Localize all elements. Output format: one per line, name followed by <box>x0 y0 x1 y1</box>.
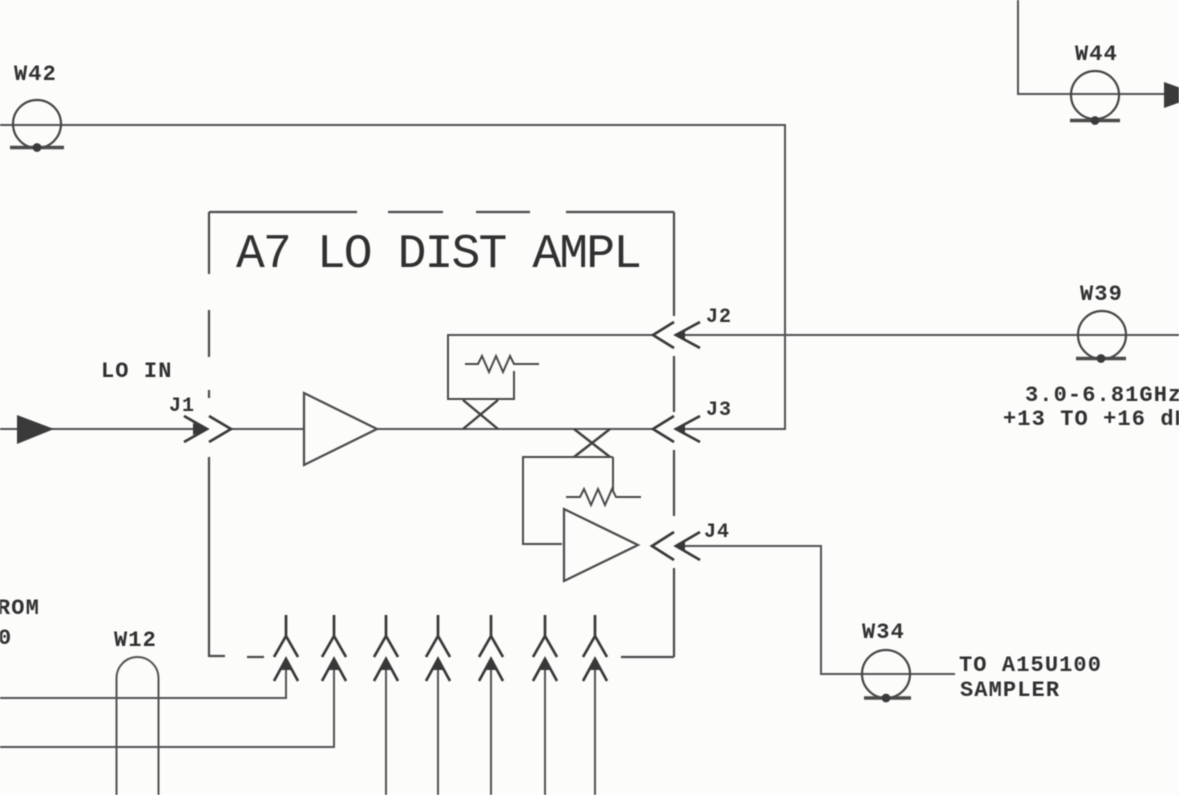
amplifier U2 <box>564 509 638 581</box>
left edge input arrow <box>17 415 54 444</box>
wire J2 external line to right edge through W39 <box>680 334 1179 336</box>
svg-text:TO A15U100: TO A15U100 <box>959 653 1102 678</box>
cable W42 ground bar <box>10 146 64 150</box>
svg-text:A7 LO DIST AMPL: A7 LO DIST AMPL <box>236 228 642 282</box>
wire J4 external line to W34 <box>680 546 954 674</box>
connector J4 plug chevron <box>676 532 700 560</box>
cable W44 ground dot <box>1091 116 1100 125</box>
svg-text:+13 TO +16 dB: +13 TO +16 dB <box>1003 407 1179 432</box>
pin P5 connector <box>479 615 503 681</box>
connector J4 plug arrowhead <box>675 542 685 551</box>
cable W39 circle <box>1078 311 1126 359</box>
svg-text:SAMPLER: SAMPLER <box>960 678 1060 703</box>
wire W42 line from left edge to J3 via right vertical <box>0 125 785 429</box>
pin P3 arrowhead <box>381 658 391 670</box>
pin P7 arrowhead <box>590 658 600 670</box>
cable W44 circle <box>1071 71 1119 119</box>
wire J1 to amplifier U1 <box>231 428 304 430</box>
svg-text:LO IN: LO IN <box>101 359 173 384</box>
pin P3 connector <box>374 615 398 681</box>
cable W42 circle <box>13 100 61 148</box>
pin P4 connector <box>426 615 450 681</box>
svg-text:W39: W39 <box>1080 282 1123 307</box>
pin P6 arrowhead <box>540 658 550 670</box>
pin P4 arrowhead <box>433 658 443 670</box>
cable loop W12 <box>117 657 159 795</box>
connector J3 plug arrowhead <box>675 425 685 434</box>
attenuator AT2 control box <box>523 457 613 544</box>
svg-text:J2: J2 <box>706 306 732 329</box>
cable W34 circle <box>862 650 910 698</box>
pin P1 connector <box>274 615 298 681</box>
attenuator AT2 X symbol <box>574 429 610 457</box>
svg-text:J3: J3 <box>706 399 732 422</box>
pin P6 connector <box>533 615 557 681</box>
wire pin 2 cable down and left <box>0 661 334 747</box>
cable W34 ground dot <box>882 694 891 703</box>
connector J2 plug chevron <box>676 322 700 348</box>
wire J2 internal feedback line <box>448 334 653 336</box>
wire pin 3 cable down <box>385 661 387 795</box>
wire LO IN line from left edge to J1 <box>0 428 205 430</box>
wire pin 5 cable down <box>490 661 492 795</box>
A7 box dashed bottom edge <box>209 656 674 657</box>
cable W34 ground bar <box>864 696 911 700</box>
pin P7 connector <box>583 615 607 681</box>
connector J1 plug chevron <box>184 416 207 442</box>
resistor R1 <box>465 356 539 372</box>
attenuator AT1 X symbol <box>463 400 498 429</box>
svg-text:W12: W12 <box>114 628 157 653</box>
attenuator AT1 control box <box>448 335 514 399</box>
pin P1 arrowhead <box>281 658 291 670</box>
wire pin 4 cable down <box>437 661 439 795</box>
connector J1 plug arrowhead <box>193 423 208 435</box>
connector J3 jack chevron <box>653 416 674 442</box>
A7 box dashed left edge <box>208 212 210 657</box>
connector J3 plug chevron <box>676 416 700 442</box>
pin P2 arrowhead <box>329 658 339 670</box>
amplifier U1 <box>304 393 377 465</box>
A7 box dashed top edge <box>209 211 674 213</box>
wire pin 1 cable down and left <box>0 661 286 698</box>
pin P2 connector <box>322 615 346 681</box>
wire pin 7 cable down <box>594 661 596 795</box>
wire W44 line from top edge <box>1018 0 1165 94</box>
connector J2 jack chevron <box>653 322 674 348</box>
svg-text:3.0-6.81GHz: 3.0-6.81GHz <box>1025 383 1179 408</box>
right edge output arrow <box>1164 82 1179 108</box>
wire pin 6 cable down <box>544 661 546 795</box>
connector J2 plug arrowhead <box>675 331 685 340</box>
svg-text:W34: W34 <box>862 620 905 645</box>
svg-text:J4: J4 <box>704 521 730 544</box>
cable W39 ground bar <box>1076 357 1126 361</box>
connector J4 jack chevron <box>652 532 674 560</box>
svg-text:W42: W42 <box>14 62 57 87</box>
connector J1 jack chevron <box>209 416 231 442</box>
svg-text:ROM: ROM <box>0 596 40 621</box>
cable W42 ground dot <box>33 143 42 152</box>
A7 box dashed right edge <box>673 212 675 657</box>
cable W39 ground dot <box>1097 354 1106 363</box>
svg-text:J1: J1 <box>169 395 195 418</box>
resistor R2 <box>566 489 641 505</box>
cable W44 ground bar <box>1070 119 1120 123</box>
svg-text:0: 0 <box>0 626 12 651</box>
pin P5 arrowhead <box>486 658 496 670</box>
svg-text:W44: W44 <box>1075 42 1118 67</box>
wire amplifier U1 output to J3 <box>377 428 653 430</box>
